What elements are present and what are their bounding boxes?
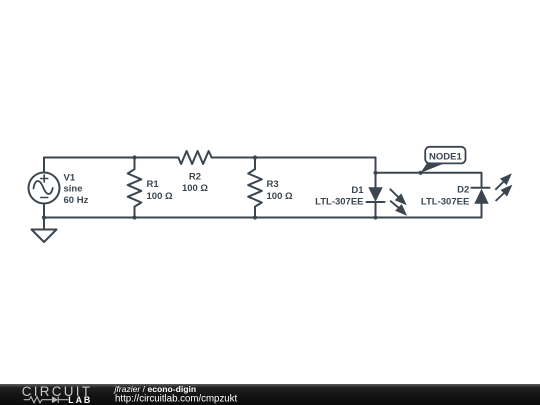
LED D1 cathode bar	[367, 201, 385, 203]
label D1	[315, 185, 364, 208]
label V1	[64, 172, 89, 206]
V1 sine wave	[34, 181, 53, 194]
wire corner down to node	[375, 158, 377, 173]
wire bottom rail	[44, 217, 482, 219]
svg-text:R1: R1	[147, 179, 160, 190]
svg-text:60 Hz: 60 Hz	[64, 195, 89, 206]
svg-text:100 Ω: 100 Ω	[147, 191, 173, 202]
wire V1 bottom lead	[43, 204, 45, 230]
svg-text:100 Ω: 100 Ω	[182, 183, 208, 194]
resistor R3	[248, 158, 262, 218]
node NODE1 callout box	[421, 147, 466, 173]
LED D2 emission arrows	[495, 175, 510, 201]
wire top-left segment	[44, 157, 178, 159]
svg-text:jfrazier / econo-digin: jfrazier / econo-digin	[114, 384, 197, 394]
svg-text:http://circuitlab.com/cmpzukt: http://circuitlab.com/cmpzukt	[115, 394, 238, 405]
resistor R2	[178, 151, 211, 164]
wire D1 vertical upper lead	[375, 173, 377, 188]
svg-text:LTL-307EE: LTL-307EE	[315, 197, 363, 208]
svg-text:D2: D2	[457, 185, 469, 196]
label R2	[182, 171, 208, 194]
node dot R3 top	[253, 155, 257, 159]
wire top-right segment	[212, 157, 376, 159]
V1 plus sign	[41, 175, 48, 182]
label R1	[147, 179, 173, 202]
node dot R1 top	[132, 155, 136, 159]
ground	[32, 230, 57, 243]
wire D2 vertical upper lead	[481, 173, 483, 188]
resistor R1	[128, 158, 142, 218]
node dot NODE1 attach	[419, 171, 423, 175]
svg-text:LTL-307EE: LTL-307EE	[421, 197, 469, 208]
wire middle horizontal to D2 branch	[376, 172, 482, 174]
wire D2 vertical lower lead	[481, 204, 483, 218]
svg-text:sine: sine	[64, 184, 83, 195]
svg-text:V1: V1	[64, 172, 76, 183]
wire D1 vertical lower lead	[375, 202, 377, 218]
svg-text:R3: R3	[267, 179, 279, 190]
node dot V1 bottom / ground junction	[42, 215, 46, 219]
node dot D1 bottom	[373, 215, 377, 219]
V1 minus sign	[41, 197, 48, 199]
label R3	[267, 179, 293, 202]
logo resistor-diode glyph	[24, 396, 69, 403]
logo diode triangle	[52, 396, 58, 403]
LED D2 cathode bar	[472, 187, 490, 189]
svg-text:NODE1: NODE1	[429, 152, 462, 163]
label D2	[421, 185, 469, 208]
node dot D1 top junction	[373, 171, 377, 175]
voltage source V1 circle	[29, 173, 60, 204]
wire V1 top lead	[43, 158, 45, 173]
footer bar	[0, 384, 540, 405]
svg-text:R2: R2	[189, 171, 201, 182]
LED D1 triangle	[368, 187, 382, 202]
node dot R3 bottom	[253, 215, 257, 219]
svg-text:LAB: LAB	[68, 395, 92, 405]
node dot R1 bottom	[132, 215, 136, 219]
svg-text:D1: D1	[351, 185, 364, 196]
svg-text:100 Ω: 100 Ω	[267, 191, 293, 202]
LED D2 triangle	[474, 189, 488, 204]
LED D1 emission arrows	[390, 189, 405, 214]
